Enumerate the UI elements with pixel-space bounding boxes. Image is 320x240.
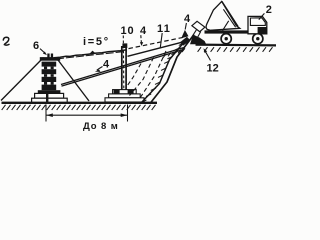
dashed leader from 10 (122, 36, 125, 89)
dimension extension line left (45, 105, 47, 122)
svg-text:До 8 м: До 8 м (83, 121, 119, 132)
left crib tower: band 3 (42, 77, 57, 82)
lower ground hatching (2, 105, 156, 110)
tipped dump bed (206, 1, 240, 30)
svg-text:10: 10 (121, 25, 135, 37)
soil wedge hatching (163, 48, 185, 58)
svg-text:12: 12 (207, 63, 219, 75)
hydraulic ram (223, 21, 229, 31)
middle tower base step 1 (113, 90, 137, 94)
anchor block at slope crest (181, 30, 188, 38)
slope inner line (141, 42, 185, 104)
label г (subfigure letter, cursive) (3, 37, 9, 45)
dashed future deck (129, 37, 185, 48)
middle tower post (121, 46, 123, 90)
slope hatching (139, 43, 184, 104)
leader from 2 to cab (259, 13, 265, 19)
front wheel (253, 34, 263, 44)
dimension arrow left (46, 113, 53, 117)
left crib tower: base step 1 (35, 93, 64, 98)
cab (248, 16, 267, 33)
middle tower base step 3 (105, 98, 144, 102)
open tailgate (192, 21, 205, 31)
svg-text:4: 4 (184, 13, 191, 25)
right guy wire (58, 60, 89, 101)
leader from 11 to cable (160, 33, 162, 48)
windshield (250, 18, 265, 26)
left crib tower: band 4 (42, 85, 57, 91)
dashed future slope position 3 (126, 64, 141, 88)
dashed future slope position 2 (130, 58, 154, 96)
left crib tower: gap blocks (44, 67, 47, 70)
left crib tower: base bar (38, 90, 61, 93)
bed inner line (223, 9, 235, 27)
cab front dark panel (258, 27, 267, 34)
leader from 12 to crest stop (205, 50, 211, 61)
upper ground line (truck level) (196, 43, 277, 46)
deck cleat bump (90, 51, 96, 54)
cable P (upper return line) (128, 41, 187, 56)
falling soil strokes (192, 30, 196, 37)
left guy wire (1, 58, 44, 101)
arrow from 4 to cable (97, 67, 103, 71)
left crib tower: top posts (47, 54, 49, 58)
slope outer line (150, 35, 194, 104)
rear wheel (221, 34, 231, 44)
left crib tower: band 2 (42, 69, 57, 74)
trestle deck (bumpy line) (54, 50, 127, 58)
svg-text:6: 6 (33, 40, 39, 52)
dimension line (46, 114, 128, 116)
bed floor edge (222, 1, 238, 26)
upper ground hatching (198, 47, 273, 52)
crest soil mound (190, 35, 206, 45)
left crib tower: base step 2 (32, 98, 68, 103)
svg-text:11: 11 (157, 23, 171, 35)
left crib tower: base center post (46, 94, 48, 103)
middle tower base step 2 (109, 94, 141, 98)
dimension extension line right (127, 105, 129, 122)
hoist cable (double line) (61, 48, 184, 85)
svg-text:2: 2 (266, 4, 272, 16)
lower ground line (2, 102, 158, 104)
truck chassis (dark bar) (205, 30, 251, 33)
svg-text:i=5°: i=5° (83, 36, 110, 48)
dimension arrow right (121, 113, 128, 117)
left crib tower: cap bar (40, 57, 60, 61)
left crib tower: band 1 (42, 62, 57, 67)
svg-text:4: 4 (103, 59, 110, 71)
leader from 6 to tower top (40, 49, 45, 54)
dashed future slope position 1 (139, 51, 166, 100)
middle tower top block (122, 43, 127, 48)
middle tower base dark blocks (114, 90, 120, 94)
leader from 4 to anchor block (185, 23, 186, 30)
dashed leader from 4 down to deck (140, 35, 143, 43)
